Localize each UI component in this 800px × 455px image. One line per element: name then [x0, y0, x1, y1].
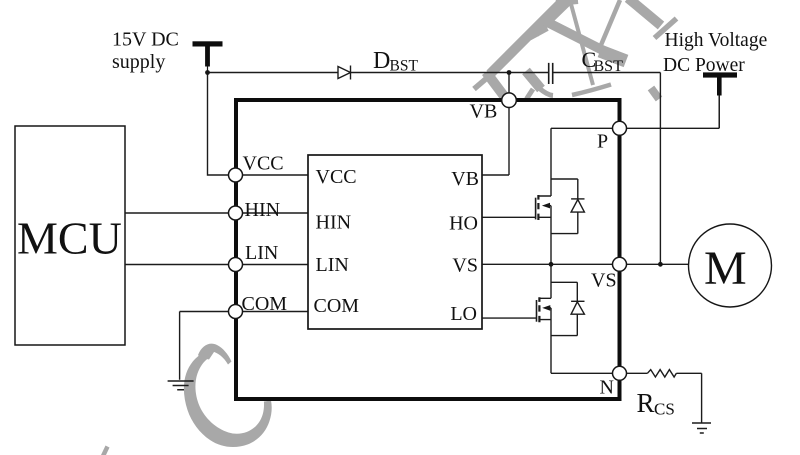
svg-text:LIN: LIN	[245, 242, 278, 264]
svg-text:DC Power: DC Power	[663, 55, 745, 76]
svg-text:P: P	[597, 131, 608, 153]
svg-text:D: D	[373, 48, 390, 74]
svg-text:VCC: VCC	[316, 166, 357, 188]
svg-text:supply: supply	[112, 51, 165, 73]
svg-text:VB: VB	[470, 101, 498, 123]
svg-text:BST: BST	[594, 58, 624, 75]
svg-text:M: M	[704, 242, 747, 295]
svg-text:VS: VS	[452, 255, 478, 277]
svg-text:LIN: LIN	[316, 254, 349, 276]
svg-text:N: N	[600, 377, 614, 399]
svg-text:COM: COM	[242, 293, 288, 315]
svg-text:VS: VS	[591, 270, 617, 292]
svg-text:HIN: HIN	[316, 212, 352, 234]
svg-text:HIN: HIN	[245, 199, 281, 221]
svg-text:High Voltage: High Voltage	[665, 30, 768, 51]
svg-text:HO: HO	[449, 213, 478, 235]
svg-text:CS: CS	[654, 400, 675, 419]
svg-text:BST: BST	[390, 58, 419, 75]
svg-text:R: R	[637, 388, 655, 418]
svg-text:15V DC: 15V DC	[112, 28, 179, 50]
svg-text:VB: VB	[451, 168, 479, 190]
svg-text:COM: COM	[314, 295, 360, 317]
svg-text:VCC: VCC	[243, 152, 284, 174]
svg-text:LO: LO	[450, 303, 477, 325]
svg-text:MCU: MCU	[17, 213, 122, 264]
